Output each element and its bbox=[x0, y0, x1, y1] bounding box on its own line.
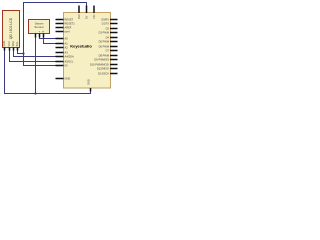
svg-text:QD 1602 LCD: QD 1602 LCD bbox=[9, 17, 13, 39]
svg-text:-: - bbox=[34, 32, 37, 33]
svg-text:Sensor: Sensor bbox=[34, 25, 44, 29]
svg-text:Keyestudio: Keyestudio bbox=[70, 44, 92, 49]
